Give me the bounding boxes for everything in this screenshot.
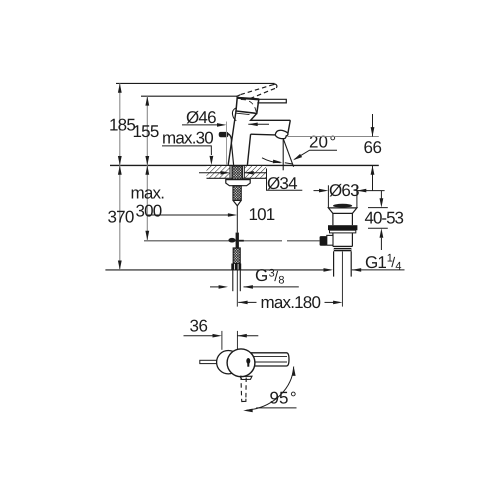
pop-up waste: rim	[328, 208, 357, 214]
dimension 185 vertical line	[119, 83, 121, 165]
svg-text:4: 4	[395, 261, 401, 273]
pop-up waste: bottom ring	[334, 248, 352, 251]
water stream 20-degree line	[283, 139, 293, 167]
dimension 95 degree arc	[247, 367, 294, 411]
hose nipple tube	[232, 270, 234, 291]
svg-text:66: 66	[364, 138, 382, 157]
dimension 370 vertical line	[119, 165, 121, 270]
side view: dimension 36 extension lines	[221, 331, 223, 350]
side view: dimension 36 line and arrows	[184, 335, 218, 337]
faucet: aerator	[275, 130, 288, 138]
faucet: cartridge head	[236, 98, 259, 114]
dimension max.180 line	[238, 301, 247, 305]
svg-text:36: 36	[190, 317, 208, 336]
svg-text:8: 8	[278, 275, 284, 287]
svg-text:101: 101	[249, 205, 275, 224]
hose G3/8 connector threaded	[233, 248, 240, 264]
pop-up waste: plug lens	[333, 204, 352, 208]
dimension 155 vertical line	[146, 96, 148, 165]
faucet shank threaded through deck	[232, 166, 242, 179]
svg-text:G1: G1	[365, 253, 386, 272]
faucet centerline lower	[236, 270, 238, 306]
pop-up waste: tailpiece	[333, 251, 335, 276]
faucet threaded stud	[233, 186, 241, 201]
pop-up waste: centerline	[341, 252, 343, 307]
dimension 40-53 extension lines	[368, 207, 388, 209]
deck hatching right of shank	[244, 166, 266, 178]
dimension 101 line	[147, 214, 233, 216]
dimension G1 1/4 arrows	[324, 268, 333, 272]
dimension 95 degree underline	[256, 407, 296, 409]
dimension Ø63 arrows	[314, 190, 325, 192]
svg-text:155: 155	[133, 122, 159, 141]
dimension G3/8 arrows	[210, 286, 224, 288]
wire: countertop deck line	[110, 164, 379, 166]
pop-up rod horizontal (grey)	[144, 240, 282, 242]
side view: main cap circle	[227, 349, 255, 377]
svg-text:Ø46: Ø46	[186, 108, 216, 127]
spout outlet level line (grey)	[288, 136, 379, 138]
dimension Ø34 arrows	[199, 172, 224, 174]
pop-up waste: Ø63 extension lines	[327, 185, 329, 208]
pop-up vertical rod	[236, 206, 238, 233]
pop-up waste: deck flange dark band	[328, 225, 357, 230]
svg-text:max.180: max.180	[261, 293, 321, 312]
dimension 40-53 vertical arrows	[380, 191, 382, 199]
dimension Ø34 leader	[267, 169, 303, 191]
svg-text:370: 370	[108, 208, 134, 227]
dimension Ø46 leader and arrows	[182, 124, 222, 126]
side view: pin	[200, 360, 217, 363]
svg-text:300: 300	[136, 201, 162, 220]
faucet: spout underside	[251, 133, 276, 136]
faucet: lever pivot sketch arc	[232, 108, 236, 121]
faucet locknut below deck	[226, 180, 250, 186]
wire: hose end / G1 1/4 dimension line at y=270	[105, 269, 330, 271]
side view: cap bottom tab	[240, 376, 252, 379]
pop-up waste: neck	[332, 213, 334, 225]
side view: lever arm	[251, 353, 289, 366]
deck bottom line	[207, 177, 267, 179]
faucet: body right edge lower	[247, 134, 250, 165]
wire: lever rest height line H2	[141, 95, 239, 97]
svg-text:185: 185	[109, 116, 135, 135]
dimension max.30 underline and leader arrow	[162, 146, 211, 155]
dimension Ø46 extension line (grey)	[226, 122, 228, 165]
deck hatching left of shank	[207, 166, 230, 178]
svg-text:max.30: max.30	[162, 128, 213, 147]
faucet: body left edge	[228, 111, 236, 165]
side view: rear cap	[217, 351, 240, 374]
faucet: raised lever top line dashes	[236, 84, 276, 98]
hose G3/8 hex nut	[231, 264, 241, 270]
svg-text:Ø63: Ø63	[329, 181, 359, 200]
dimension 66 vertical line and arrows	[372, 114, 374, 137]
faucet: body right edge upper + spout top	[251, 113, 291, 120]
wire: lever max height line H1	[116, 82, 275, 84]
faucet: raised lever tip	[273, 84, 277, 88]
faucet: pull rod knob and wire	[219, 132, 228, 136]
faucet: spout right end edge	[288, 120, 290, 133]
svg-text:G: G	[255, 266, 268, 285]
pop-up waste: body	[332, 233, 334, 247]
svg-text:Ø34: Ø34	[267, 174, 297, 193]
side view: keyhole slot	[246, 358, 250, 364]
dimension 20 degree arc	[262, 158, 281, 163]
pop-up rod cross clamp	[236, 233, 239, 248]
svg-text:20 °: 20 °	[309, 133, 336, 152]
svg-text:40-53: 40-53	[365, 208, 404, 227]
side view: lever rotated down (dashed)	[241, 376, 246, 399]
svg-text:95 °: 95 °	[270, 388, 297, 407]
svg-text:max.: max.	[131, 183, 165, 202]
shank hole edges	[229, 166, 231, 178]
water stream vertical line	[282, 139, 284, 171]
faucet: lever bar (rest position)	[257, 99, 286, 103]
pop-up waste: side port	[327, 235, 333, 245]
dimension 20 degree leader	[295, 150, 338, 159]
dimension max.300 vertical line	[146, 165, 148, 240]
